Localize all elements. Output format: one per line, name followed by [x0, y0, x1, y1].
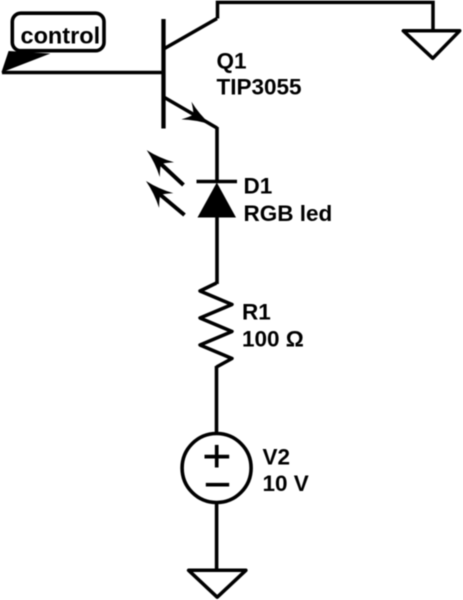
wire emitter to LED: [215, 127, 219, 182]
svg-text:RGB led: RGB led: [244, 201, 333, 226]
svg-text:D1: D1: [244, 174, 273, 199]
wire LED to R1: [215, 216, 219, 284]
wire base: [2, 71, 164, 75]
ground (bottom): [189, 570, 246, 597]
svg-text:R1: R1: [242, 299, 271, 324]
resistor R1: [200, 283, 232, 367]
emission arrow lower: [139, 174, 185, 215]
transistor Q1: [164, 19, 218, 134]
svg-text:TIP3055: TIP3055: [217, 75, 302, 100]
svg-text:control: control: [21, 23, 101, 49]
node control (speech bubble): [1, 13, 104, 72]
emission arrow upper: [140, 143, 184, 185]
svg-text:100 Ω: 100 Ω: [242, 326, 304, 351]
label V2 10 V: [263, 445, 309, 497]
svg-text:V2: V2: [263, 445, 291, 470]
ground (top right): [403, 31, 459, 59]
label R1 100 ohm: [242, 299, 304, 351]
svg-text:10 V: 10 V: [263, 471, 309, 496]
wire V2 to ground: [215, 503, 219, 571]
LED D1: [139, 143, 237, 218]
label D1 RGB led: [244, 174, 333, 227]
svg-text:Q1: Q1: [217, 49, 247, 74]
label Q1 TIP3055: [217, 49, 302, 100]
wire R1 to V2: [215, 366, 219, 435]
wire collector to top rail and top ground: [218, 2, 434, 31]
voltage source V2: [182, 434, 251, 503]
